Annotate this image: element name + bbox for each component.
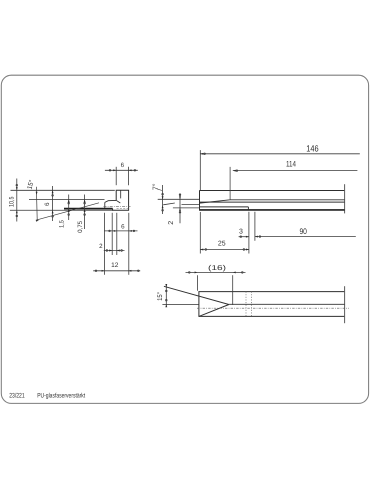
ext line top (10,5) — [11, 189, 115, 191]
7deg / 2 dims at left of side view — [157, 185, 200, 223]
dim (16) — [186, 272, 246, 305]
svg-text:6: 6 — [121, 162, 125, 169]
dim 2 — [104, 250, 125, 252]
svg-text:23/221: 23/221 — [9, 393, 25, 400]
inner vertical — [120, 190, 122, 198]
svg-text:10,5: 10,5 — [8, 196, 15, 207]
dim 0,75 — [84, 195, 86, 230]
dim 10,5 — [16, 179, 18, 222]
svg-text:3: 3 — [239, 229, 243, 236]
svg-text:0,75: 0,75 — [77, 220, 84, 232]
profile outline spine — [105, 190, 129, 210]
dim 6 bottom — [104, 230, 138, 232]
svg-text:12: 12 — [111, 262, 119, 269]
dim 12 — [93, 270, 140, 272]
15deg dim — [165, 285, 167, 307]
ext line bottom — [10, 209, 113, 211]
dim 6 vertical — [52, 186, 54, 221]
blade tip edge — [104, 202, 106, 208]
dim 146 — [200, 150, 359, 190]
svg-text:2: 2 — [99, 243, 103, 250]
15deg slant line + leader — [36, 187, 99, 222]
svg-text:1,5: 1,5 — [59, 220, 66, 228]
svg-text:2: 2 — [168, 221, 175, 225]
beak top — [105, 200, 116, 202]
svg-text:(16): (16) — [208, 264, 226, 272]
svg-text:PU-glasfaserverstärkt: PU-glasfaserverstärkt — [37, 393, 85, 400]
blade bottom thick — [64, 208, 113, 210]
dim 1,5 — [68, 195, 70, 221]
bottom dims of side view — [200, 212, 355, 254]
svg-text:146: 146 — [306, 144, 318, 154]
svg-text:6: 6 — [121, 223, 125, 230]
svg-text:15°: 15° — [157, 292, 164, 301]
dim 6 top — [105, 167, 138, 185]
ext line mid (blade top ref) — [29, 198, 105, 200]
hidden slot bottom dashes — [117, 208, 129, 210]
centerline dash-dot — [104, 205, 131, 207]
svg-text:7°: 7° — [153, 183, 160, 190]
svg-text:90: 90 — [299, 227, 307, 236]
svg-text:25: 25 — [218, 240, 226, 247]
drawing frame — [1, 75, 368, 403]
chamfer — [116, 200, 120, 203]
svg-text:6: 6 — [44, 202, 51, 206]
dim 114 — [230, 167, 357, 200]
svg-text:114: 114 — [286, 160, 296, 169]
bottom dims ext lines — [105, 213, 129, 275]
